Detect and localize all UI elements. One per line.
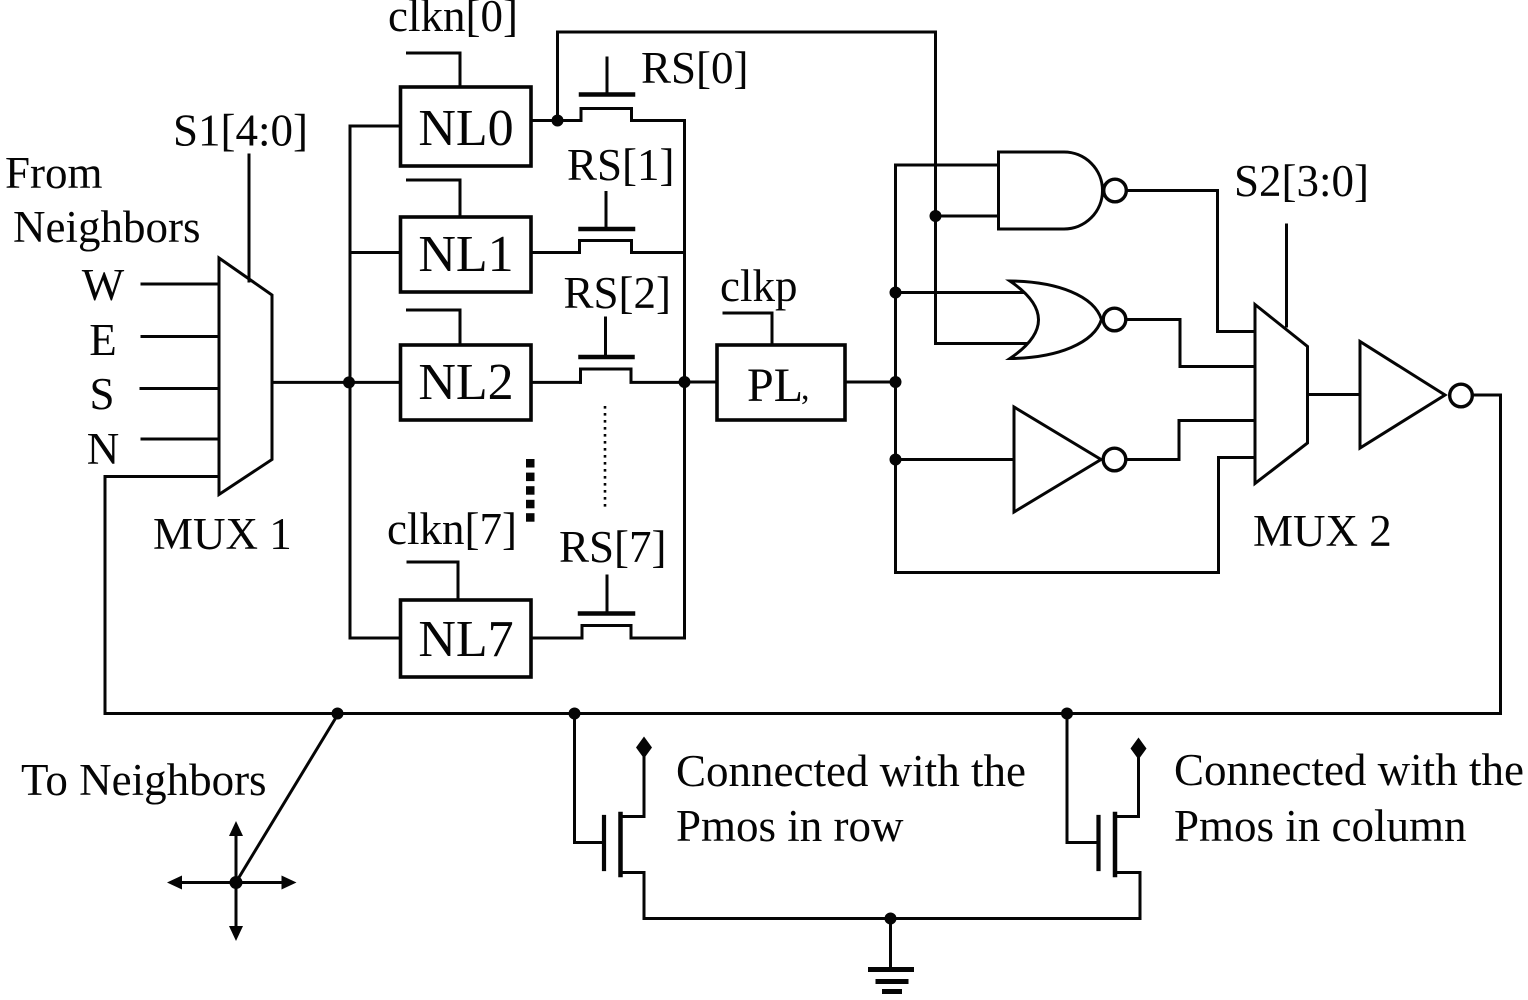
svg-text:NL7: NL7 [418,611,513,668]
wire gate input bus [894,165,897,573]
svg-text:S: S [89,369,114,419]
wire E input [142,335,219,338]
wire MUX2 output [1308,393,1361,396]
wire NL0 input [350,125,401,128]
transistor RS[0] [581,58,685,121]
wire output to bottom bus [1474,395,1501,714]
node NOR top input junction [890,287,902,299]
svg-text:MUX 1: MUX 1 [153,509,292,559]
wire ground rail [644,917,1140,920]
svg-text:Pmos in row: Pmos in row [676,801,904,851]
wire clkn[7] stub [408,562,458,599]
wire top feedback [558,32,936,344]
wire NL1 input [350,251,401,254]
ellipsis NL continuation dots [526,459,535,522]
node column-transistor junction [1061,708,1073,720]
latch NL1 [401,217,532,292]
wire N input [142,438,219,441]
node row-transistor junction [569,708,581,720]
svg-text:NL0: NL0 [418,100,513,157]
wire NL7 output [531,637,582,640]
svg-text:RS[2]: RS[2] [564,268,672,318]
latch PL [717,345,845,420]
latch NL2 [401,345,532,420]
node NL0 output junction [552,115,564,127]
transistor Q2 column [1067,714,1140,919]
wire NL input bus [349,126,352,638]
svg-text:From: From [5,148,103,198]
wire feedback input to MUX1 [105,477,219,714]
node MUX1 output junction [343,376,355,388]
wire PL output [846,381,896,384]
node inverter input junction [890,454,902,466]
wire clkp stub [724,313,772,344]
wire clkn[0] stub [408,53,461,86]
ground [868,919,914,992]
svg-text:clkn[7]: clkn[7] [387,504,517,554]
svg-text:MUX 2: MUX 2 [1253,506,1392,556]
latch NL7 [401,600,532,677]
latch NL0 [401,87,532,166]
node To-Neighbors junction [332,708,344,720]
svg-text:PL: PL [747,359,803,412]
wire NOR output to MUX2 [1128,320,1255,367]
svg-text:E: E [89,315,117,365]
svg-text:Pmos in column: Pmos in column [1174,801,1467,851]
wire MUX1 output [272,381,401,384]
wire S2 select [1285,225,1288,326]
wire NAND top input [896,164,1000,167]
wire NL0 output [531,119,581,122]
gate NAND [999,152,1127,229]
mux MUX1 [219,258,272,495]
node RS bus junction at PL row [679,376,691,388]
svg-text:RS[7]: RS[7] [559,522,667,572]
wire NAND output to MUX2 [1129,191,1256,332]
wire W input [142,283,219,286]
svg-text:Connected with the: Connected with the [676,746,1026,796]
wire NL2 output [531,381,581,384]
wire clkn[2] stub [408,310,461,344]
node PL output junction [890,376,902,388]
gate inverter U1 [1014,407,1126,512]
svg-text:clkn[0]: clkn[0] [388,0,518,41]
svg-text:RS[0]: RS[0] [641,43,749,93]
wire NL7 input [350,637,401,640]
transistor RS[2] [581,318,685,382]
wire RS output bus [683,121,686,639]
wire bottom bus [105,712,1501,715]
wire NL1 output [531,251,580,254]
wire S1 select [248,155,251,281]
svg-text:NL1: NL1 [418,226,513,283]
svg-text:N: N [87,424,120,474]
label Connected with the Pmos in column [1174,745,1524,851]
transistor Q1 row [575,714,645,919]
mux MUX2 [1255,305,1308,484]
gate NOR [1010,281,1126,359]
wire inverter output to MUX2 [1128,421,1255,460]
label Connected with the Pmos in row [676,746,1026,851]
wire inverter input [896,458,1015,461]
wire S input [141,387,219,390]
symbol column drain diamond [1131,738,1147,760]
ellipsis RS continuation dashed line [604,406,607,511]
label From Neighbors [5,148,200,252]
gate output inverter U2 [1360,342,1472,449]
svg-text:S2[3:0]: S2[3:0] [1234,156,1369,206]
symbol row drain diamond [636,737,652,759]
svg-text:Neighbors: Neighbors [13,202,200,252]
svg-text:clkp: clkp [720,261,797,311]
svg-text:W: W [82,260,125,310]
wire To-Neighbors diagonal [237,715,338,882]
svg-text:S1[4:0]: S1[4:0] [173,106,308,156]
svg-text:RS[1]: RS[1] [567,140,675,190]
node NAND bottom input junction [930,210,942,222]
wire NOR bottom input [936,342,1028,345]
svg-text:NL2: NL2 [418,354,513,411]
wire direct input to MUX2 [896,458,1256,573]
transistor RS[7] [580,576,685,638]
svg-text:To Neighbors: To Neighbors [21,755,267,805]
node ground junction [885,913,897,925]
symbol neighbor arrows cross [167,821,297,941]
svg-text:Connected with the: Connected with the [1174,745,1524,795]
wire clkn[1] stub [408,180,461,216]
transistor RS[1] [580,193,685,253]
svg-text:,: , [801,370,810,407]
wire NAND bottom input [936,215,1000,218]
wire NOR top input [896,291,1025,294]
wire PL input [685,381,717,384]
